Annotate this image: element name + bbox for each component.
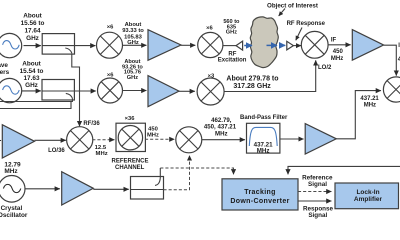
wire DC1 to mixer X1 xyxy=(75,45,96,47)
svg-text:12.5MHz: 12.5MHz xyxy=(95,145,108,157)
amplifier A3 xyxy=(352,30,383,61)
multiplier X7 x3 xyxy=(197,78,224,105)
label x3 xyxy=(208,73,215,79)
object of interest (sample blob) xyxy=(250,17,278,68)
svg-text:MicrowaveSynthesizers: MicrowaveSynthesizers xyxy=(0,62,10,76)
wire A2 to multiplier X7 xyxy=(179,90,195,92)
svg-text:462.79,450, 437.21MHz: 462.79,450, 437.21MHz xyxy=(204,117,237,137)
dashed wire reference signal to lock-in xyxy=(298,191,331,193)
oscillator OSC2 (microwave synthesizer 2) xyxy=(0,78,22,102)
svg-text:Band-Pass Filter: Band-Pass Filter xyxy=(240,115,288,121)
svg-text:RF/36: RF/36 xyxy=(83,121,100,127)
label 560 to 635 GHz xyxy=(223,19,240,36)
svg-text:RF Response: RF Response xyxy=(287,21,326,27)
wire from right edge into tracking down-converter xyxy=(288,166,400,174)
horn antenna ANT1 (transmit) xyxy=(236,41,243,50)
wire X6 to amplifier A2 xyxy=(123,90,147,92)
label 450 MHz xyxy=(147,127,159,139)
label About 15.54 to 17.63 GHz xyxy=(20,61,44,89)
multiplier U1 x36 reference channel xyxy=(116,123,145,151)
multiplier X6 x6 xyxy=(98,78,123,103)
directional coupler DC1 xyxy=(42,34,74,55)
label x6 xyxy=(107,25,114,31)
label Reference Signal xyxy=(302,175,333,189)
label IF (cut at right edge) xyxy=(398,43,400,49)
svg-text:About93.26 to105.76GHz: About93.26 to105.76GHz xyxy=(122,59,143,81)
lock-in amplifier box xyxy=(335,183,399,209)
label 46 (cut at right edge) xyxy=(398,57,400,63)
label 12.79 MHz xyxy=(4,162,21,175)
dashed wire to tracking down-converter xyxy=(160,168,233,174)
label IF 450 MHz xyxy=(331,38,344,63)
svg-text:CrystalOscillator: CrystalOscillator xyxy=(0,205,28,219)
tracking down-converter box xyxy=(222,179,298,210)
svg-text:×6: ×6 xyxy=(107,72,114,78)
wire DC1 coupled port down to mixer X5 (RF/36) xyxy=(72,53,80,126)
svg-text:ReferenceSignal: ReferenceSignal xyxy=(302,175,333,189)
pointer from label to object xyxy=(279,9,285,16)
wire return from off image joining up xyxy=(0,102,71,109)
svg-text:×6: ×6 xyxy=(107,25,114,31)
label Band-Pass Filter xyxy=(240,115,288,121)
svg-text:437.21MHz: 437.21MHz xyxy=(360,96,379,109)
svg-text:Lock-InAmplifier: Lock-InAmplifier xyxy=(354,189,383,203)
mixer X3 (subharmonic, LO/2) xyxy=(301,31,328,58)
label About 93.26 to 105.76 GHz xyxy=(122,59,143,81)
wire input to amplifier A6 from left edge xyxy=(0,140,1,142)
pointer from RF Response label to horn output xyxy=(296,28,302,41)
label x6 xyxy=(206,26,213,32)
wire X8 to band-pass filter xyxy=(202,139,245,141)
label REFERENCE CHANNEL xyxy=(111,159,148,171)
label About 279.78 to 317.28 GHz xyxy=(226,76,278,90)
wire A1 to multiplier X2 xyxy=(181,44,195,46)
svg-text:12.79MHz: 12.79MHz xyxy=(4,162,21,175)
horn antenna ANT2 (receive) xyxy=(287,41,294,50)
mixer X8 xyxy=(176,127,202,153)
wire response signal to lock-in xyxy=(298,200,331,202)
wire OSC2 to coupler DC2 xyxy=(22,90,41,92)
svg-text:×3: ×3 xyxy=(208,73,215,79)
wire X2 to horn ANT1 xyxy=(223,45,236,47)
label About 93.33 to 105.83 GHz xyxy=(122,22,144,46)
oscillator OSC1 (microwave synthesizer 1) xyxy=(0,33,22,57)
amplifier A1 xyxy=(148,30,181,61)
wire X3 to amplifier A3 xyxy=(328,44,350,46)
svg-text:REFERENCECHANNEL: REFERENCECHANNEL xyxy=(111,159,148,171)
label Crystal Oscillator xyxy=(0,205,28,219)
label Object of Interest xyxy=(267,2,318,9)
svg-text:About15.54 to17.63GHz: About15.54 to17.63GHz xyxy=(20,61,44,89)
svg-text:IF450MHz: IF450MHz xyxy=(331,38,344,63)
blue beam arrow into object xyxy=(244,45,252,47)
label RF Excitation xyxy=(218,51,247,63)
label 437.21 MHz xyxy=(360,96,379,109)
svg-text:LO/2: LO/2 xyxy=(318,65,332,71)
svg-text:450MHz: 450MHz xyxy=(147,127,159,139)
svg-text:RFExcitation: RFExcitation xyxy=(218,51,247,63)
multiplier X1 x6 xyxy=(97,32,123,58)
directional coupler DC2 xyxy=(42,80,74,101)
amplifier A5 xyxy=(305,124,336,154)
wire OSC1 to coupler DC1 xyxy=(24,45,41,47)
label Microwave Synthesizers (cut off at left edge) xyxy=(0,62,10,76)
crystal oscillator OSC3 xyxy=(0,176,25,203)
label Response Signal xyxy=(303,205,334,219)
mixer X4 (output mixer, partly cut at edge) xyxy=(383,77,400,102)
wire OSC3 to amplifier A4 xyxy=(25,188,60,190)
label x36 xyxy=(125,116,136,122)
label 462.79, 450, 437.21 MHz xyxy=(204,117,237,137)
svg-text:About93.33 to105.83GHz: About93.33 to105.83GHz xyxy=(122,22,144,46)
dashed wire U1 to mixer X8 xyxy=(145,138,174,140)
label LO/2 xyxy=(318,65,332,71)
dashed wire X5 to reference channel multiplier xyxy=(92,139,114,141)
multiplier X2 x6 xyxy=(198,32,223,57)
blue beam arrow inside object xyxy=(267,44,278,46)
svg-text:ResponseSignal: ResponseSignal xyxy=(303,205,334,219)
wire DC3 coupled port up to dashed distribution xyxy=(159,168,161,178)
wire A5 up to mixer X4 xyxy=(336,91,381,139)
directional coupler DC3 xyxy=(131,177,164,200)
mixer X5 xyxy=(67,127,93,153)
label LO/36 xyxy=(48,148,65,154)
label RF Response xyxy=(287,21,326,27)
wire X1 to amplifier A1 xyxy=(122,44,146,46)
wire FL1 to amplifier A5 xyxy=(280,138,304,140)
wire ANT2 to mixer X3 xyxy=(293,45,301,47)
wire A4 to coupler DC3 xyxy=(93,188,128,190)
wire DC2 to mixer X6 xyxy=(74,90,95,92)
label About 15.56 to 17.64 GHz xyxy=(21,13,45,43)
svg-text:Object of Interest: Object of Interest xyxy=(267,2,318,9)
label 12.5 MHz xyxy=(95,145,108,157)
band-pass filter FL1 xyxy=(247,123,280,154)
svg-text:×6: ×6 xyxy=(206,26,213,32)
svg-text:LO/36: LO/36 xyxy=(48,148,65,154)
wire A6 to mixer X5 xyxy=(35,139,66,141)
amplifier A6 xyxy=(2,125,34,158)
wire DC2 coupled port down and left off image xyxy=(0,98,72,101)
amplifier A4 xyxy=(62,172,94,205)
wire A3 right then down into mixer X4 xyxy=(384,45,397,75)
svg-text:About15.56 to17.64GHz: About15.56 to17.64GHz xyxy=(21,13,45,43)
amplifier A2 xyxy=(148,76,179,107)
svg-text:×36: ×36 xyxy=(125,116,136,122)
label RF/36 xyxy=(83,121,100,127)
svg-text:560 to635GHz: 560 to635GHz xyxy=(223,19,240,36)
blue beam arrow out of object xyxy=(279,44,285,46)
label x6 xyxy=(107,72,114,78)
wire X7 to mixer X3 LO port xyxy=(224,60,315,91)
dashed wire DC3 through port to mixer X8 LO xyxy=(164,156,190,190)
svg-text:About 279.78 to317.28 GHz: About 279.78 to317.28 GHz xyxy=(226,76,278,90)
